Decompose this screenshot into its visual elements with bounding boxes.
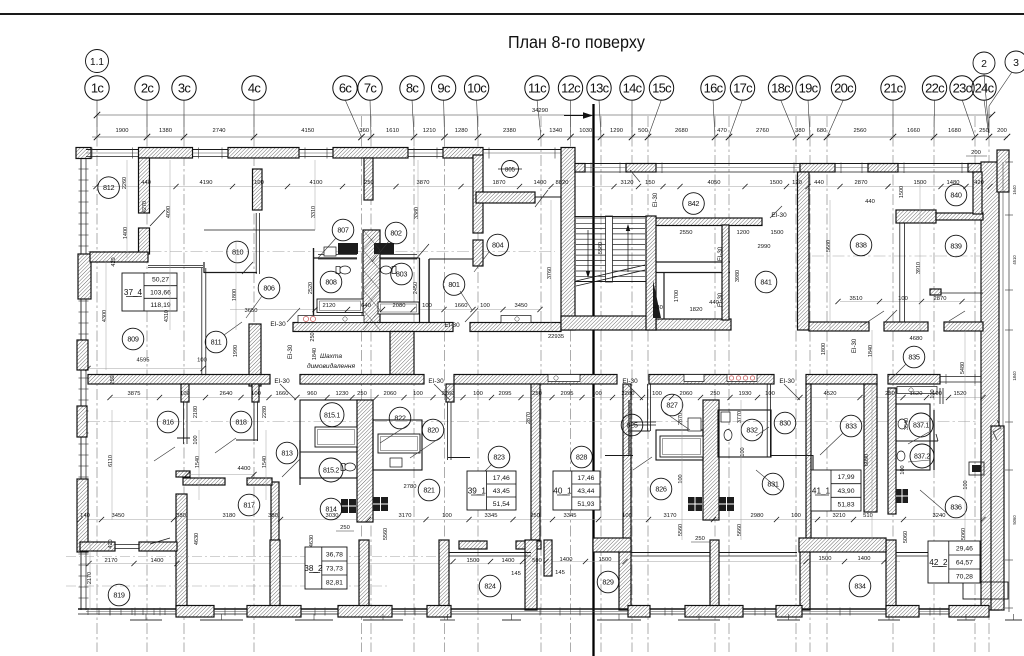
left wall hatched mid2 <box>77 406 87 437</box>
chain line rooms y=421 left <box>88 421 538 423</box>
svg-text:100: 100 <box>473 391 483 397</box>
svg-text:1540: 1540 <box>262 456 268 468</box>
room circle 838 <box>850 234 872 256</box>
svg-text:816: 816 <box>162 418 174 427</box>
svg-text:250: 250 <box>710 391 720 397</box>
svg-text:3980: 3980 <box>735 270 741 282</box>
leader grid 7c <box>370 100 371 138</box>
grid bubble 11c <box>525 76 549 100</box>
svg-text:2380: 2380 <box>503 128 516 134</box>
leader grid 13c <box>599 100 601 138</box>
vertical chain stubs <box>90 160 965 610</box>
interior partitions extra <box>628 400 630 455</box>
leader grid 9c <box>443 100 446 138</box>
svg-text:2760: 2760 <box>756 128 769 134</box>
apartment table 42_2 <box>928 541 980 583</box>
wall above 819 b <box>139 542 177 551</box>
svg-text:4310: 4310 <box>164 310 170 322</box>
svg-text:23c: 23c <box>953 80 973 95</box>
svg-text:827: 827 <box>666 401 678 410</box>
svg-text:17c: 17c <box>733 80 753 95</box>
leader grid 15c <box>648 100 662 138</box>
grid bubble 1c <box>85 76 109 100</box>
bottom pier x338 <box>338 606 392 618</box>
leader grid 3c <box>183 100 185 138</box>
svg-text:5560: 5560 <box>383 528 389 540</box>
svg-text:3450: 3450 <box>112 513 125 519</box>
corridor top wall seg2 <box>470 323 561 332</box>
svg-text:1840: 1840 <box>312 348 318 360</box>
left wall hatched mid1 <box>77 340 88 370</box>
svg-text:250: 250 <box>530 513 540 519</box>
svg-text:2640: 2640 <box>220 391 233 397</box>
grid bubble 17c <box>730 76 754 100</box>
apartment table 37_4 <box>122 273 177 311</box>
grid bubble 2c <box>135 76 159 100</box>
svg-text:EI-30: EI-30 <box>270 321 286 328</box>
corridor bottom wall x806-877 <box>806 375 877 385</box>
svg-text:EI-30: EI-30 <box>771 212 787 219</box>
bathtub 822 <box>378 434 420 453</box>
svg-text:5060: 5060 <box>961 528 967 540</box>
room circle 821 <box>418 479 440 501</box>
right margin small labels <box>993 420 1001 440</box>
room circle 829 <box>597 571 619 593</box>
svg-text:100: 100 <box>898 296 908 302</box>
svg-text:2120: 2120 <box>323 303 336 309</box>
svg-text:EI-30: EI-30 <box>428 378 444 385</box>
svg-text:842: 842 <box>688 199 700 208</box>
dimension row ticks <box>107 395 112 400</box>
svg-text:1660: 1660 <box>907 128 920 134</box>
svg-text:806: 806 <box>263 284 275 293</box>
svg-text:1520: 1520 <box>954 391 967 397</box>
window tick marks top band <box>92 148 962 174</box>
leader bubble 3 <box>989 72 1012 133</box>
leader grid 11c <box>537 100 541 138</box>
svg-text:1500: 1500 <box>770 180 783 186</box>
svg-text:817: 817 <box>243 501 255 510</box>
bottom pier x427 <box>427 606 451 618</box>
svg-text:3345: 3345 <box>485 513 498 519</box>
chain line row y=561 right <box>550 561 900 563</box>
wall 813 right <box>299 440 301 485</box>
svg-text:803: 803 <box>396 270 408 279</box>
wall x888 down <box>888 388 896 514</box>
svg-text:100: 100 <box>413 391 423 397</box>
svg-text:440: 440 <box>865 199 875 205</box>
sink 822 <box>390 458 402 467</box>
room circle 814 <box>320 498 342 520</box>
bathtub 815.1 <box>315 427 357 447</box>
svg-text:2095: 2095 <box>499 391 512 397</box>
window glass lines top-left band <box>86 152 561 154</box>
leader bubble 2 <box>984 74 989 133</box>
vertical grid axis lines (dashed) <box>97 116 989 652</box>
svg-text:804: 804 <box>492 241 504 250</box>
svg-text:1030: 1030 <box>579 128 592 134</box>
svg-text:3120: 3120 <box>621 180 634 186</box>
pier below 805 niche <box>473 240 483 266</box>
door leaf 801 <box>416 244 429 259</box>
top border line <box>0 13 1024 15</box>
chain line rooms y=251 <box>88 251 555 253</box>
room circle 824 <box>479 575 501 597</box>
svg-text:250: 250 <box>310 332 316 341</box>
svg-text:440: 440 <box>141 180 151 186</box>
left wall pier <box>78 254 91 299</box>
svg-text:829: 829 <box>602 578 614 587</box>
svg-text:118,19: 118,19 <box>150 302 171 309</box>
svg-text:250: 250 <box>885 391 895 397</box>
svg-text:1480: 1480 <box>947 180 960 186</box>
svg-text:811: 811 <box>211 338 222 347</box>
room circle 840 <box>945 184 967 206</box>
grid bubble 3c <box>172 76 196 100</box>
grid bubble 24c <box>972 76 996 100</box>
svg-text:100: 100 <box>678 474 684 483</box>
room circle 842 <box>683 193 705 215</box>
svg-text:100: 100 <box>251 391 261 397</box>
svg-text:70,28: 70,28 <box>956 573 973 580</box>
svg-text:10c: 10c <box>467 80 487 95</box>
svg-text:2260: 2260 <box>622 391 635 397</box>
svg-text:2520: 2520 <box>308 282 314 294</box>
svg-text:834: 834 <box>854 582 866 591</box>
top wall pier 4 <box>443 148 483 159</box>
room leader lines <box>154 238 948 514</box>
party wall E low <box>525 540 537 610</box>
corridor bottom wall x649-774 <box>649 375 774 385</box>
824 wall b <box>516 541 541 549</box>
washer left 1 <box>341 499 356 513</box>
bottom outer wall base lines <box>78 608 989 610</box>
svg-text:3170: 3170 <box>399 513 412 519</box>
bathroom top walls 808/803 <box>314 257 358 259</box>
svg-text:1500: 1500 <box>899 186 905 198</box>
leader grid 14c <box>631 100 633 138</box>
room circle 809 <box>122 328 144 350</box>
apartment table 41_1 <box>811 470 861 511</box>
washer right 1 <box>688 497 702 511</box>
svg-text:36,78: 36,78 <box>326 551 343 558</box>
upper cluster dark fixture 1 <box>324 247 336 256</box>
svg-text:832: 832 <box>746 426 758 435</box>
toilet 808 <box>340 266 351 274</box>
svg-text:1340: 1340 <box>549 128 562 134</box>
817 north a <box>183 478 225 485</box>
svg-text:100: 100 <box>930 389 936 398</box>
dim 4595 line <box>88 368 202 370</box>
svg-text:841: 841 <box>760 278 772 287</box>
chain line row y=397 <box>110 397 983 399</box>
svg-text:1400: 1400 <box>858 556 871 562</box>
left outer wall (glazing) <box>80 152 82 610</box>
room circle 831 <box>762 473 784 495</box>
grid bubble 16c <box>701 76 725 100</box>
room circle 807 <box>332 219 354 241</box>
svg-text:18c: 18c <box>771 80 791 95</box>
svg-text:1840: 1840 <box>868 345 874 357</box>
svg-text:20c: 20c <box>834 80 854 95</box>
grid bubble 6c <box>333 76 357 100</box>
svg-text:1680: 1680 <box>948 128 961 134</box>
svg-text:510: 510 <box>863 513 873 519</box>
svg-text:17,46: 17,46 <box>493 475 510 482</box>
room circle 832 <box>741 419 763 441</box>
room circle 803 <box>391 263 413 285</box>
svg-text:41_1: 41_1 <box>812 487 831 496</box>
svg-text:82,81: 82,81 <box>326 579 343 586</box>
svg-text:250: 250 <box>532 391 542 397</box>
svg-text:1210: 1210 <box>423 128 436 134</box>
svg-text:200: 200 <box>997 128 1007 134</box>
leader grid 2c <box>146 100 148 138</box>
svg-text:100: 100 <box>791 513 801 519</box>
room circle 833 <box>840 415 862 437</box>
svg-text:4270: 4270 <box>142 201 148 213</box>
svg-text:7c: 7c <box>364 80 378 95</box>
room circle 813 <box>276 442 298 464</box>
svg-text:51,93: 51,93 <box>577 501 594 508</box>
bottom pier x776 <box>776 606 802 618</box>
svg-text:2260: 2260 <box>442 391 455 397</box>
svg-text:820: 820 <box>427 426 439 435</box>
apartment table 39_1 <box>467 471 516 510</box>
chain line rooms right y=256 <box>812 255 980 257</box>
room circle 812 <box>98 177 120 199</box>
svg-text:360: 360 <box>359 128 369 134</box>
right boundary line <box>1008 158 1010 612</box>
svg-text:1870: 1870 <box>493 180 506 186</box>
balcony sill marks below bottom wall <box>130 614 1022 620</box>
svg-text:808: 808 <box>325 278 337 287</box>
svg-text:16c: 16c <box>704 80 724 95</box>
svg-text:1230: 1230 <box>336 391 349 397</box>
room circle 805 (struck) <box>502 161 519 178</box>
apartment table 40_1 <box>553 471 600 510</box>
stove with burners <box>727 375 757 382</box>
svg-text:19c: 19c <box>799 80 819 95</box>
svg-text:22c: 22c <box>925 80 945 95</box>
svg-text:5580: 5580 <box>598 242 604 254</box>
wall 836 left <box>933 410 935 470</box>
svg-text:3345: 3345 <box>564 513 577 519</box>
svg-text:828: 828 <box>576 453 588 462</box>
wall 829 west <box>544 540 552 576</box>
stair arrow down <box>587 230 589 276</box>
overall dimension line 34290 <box>97 114 992 116</box>
svg-text:250: 250 <box>340 525 350 531</box>
svg-text:64,57: 64,57 <box>956 559 973 566</box>
kitchen 827 walls <box>647 384 649 431</box>
svg-text:837.2: 837.2 <box>914 454 930 461</box>
svg-text:3210: 3210 <box>833 513 846 519</box>
leader grid 10c <box>477 100 478 138</box>
svg-text:5560: 5560 <box>678 524 684 536</box>
heavy section line <box>592 104 594 656</box>
svg-text:4090: 4090 <box>166 206 172 218</box>
svg-text:4400: 4400 <box>238 466 251 472</box>
svg-text:2550: 2550 <box>680 230 693 236</box>
835 north wall b <box>944 322 983 331</box>
room circle 804 <box>487 234 509 256</box>
svg-text:43,44: 43,44 <box>577 488 594 495</box>
838 south wall <box>809 322 869 331</box>
svg-text:2680: 2680 <box>675 128 688 134</box>
balcony bottom right corner <box>963 582 1008 599</box>
bathroom 837 walls <box>896 404 930 470</box>
svg-text:6110: 6110 <box>108 455 114 467</box>
svg-text:815.2: 815.2 <box>323 468 339 475</box>
svg-text:819: 819 <box>113 591 125 600</box>
leader grid 8c <box>412 100 414 138</box>
svg-text:1990: 1990 <box>233 345 239 357</box>
svg-text:250: 250 <box>110 375 116 384</box>
grid bubble 7c <box>358 76 382 100</box>
room circle 817 <box>238 494 260 516</box>
svg-text:9c: 9c <box>437 80 451 95</box>
section arrow on overall line <box>564 115 589 117</box>
svg-text:3180: 3180 <box>223 513 236 519</box>
wall 812/810 upper <box>139 158 150 213</box>
svg-text:50,27: 50,27 <box>152 277 169 284</box>
svg-text:1400: 1400 <box>560 557 573 563</box>
svg-text:835: 835 <box>908 353 920 362</box>
bathroom 822 walls <box>373 420 422 470</box>
svg-text:1800: 1800 <box>232 289 238 301</box>
grid bubble 9c <box>431 76 455 100</box>
svg-text:801: 801 <box>448 280 460 289</box>
chain line row y=186 <box>92 186 983 188</box>
top-right pier d <box>868 164 898 173</box>
svg-text:42_2: 42_2 <box>929 558 948 567</box>
shaft lower-left <box>357 400 373 522</box>
svg-text:EI-30: EI-30 <box>852 338 858 353</box>
svg-text:807: 807 <box>337 226 349 235</box>
top-right pier e <box>968 164 983 173</box>
grid bubble 10c <box>464 76 488 100</box>
corridor window right end <box>940 376 981 378</box>
washer 836 <box>896 489 908 503</box>
svg-text:960: 960 <box>307 391 317 397</box>
svg-text:825: 825 <box>626 421 638 430</box>
chain line row y=301 <box>840 301 983 303</box>
svg-text:21c: 21c <box>884 80 904 95</box>
room circle 834 <box>849 575 871 597</box>
svg-text:812: 812 <box>103 183 115 192</box>
svg-text:2870: 2870 <box>934 296 947 302</box>
leader grid 24c <box>984 100 989 138</box>
svg-text:51,83: 51,83 <box>837 502 854 509</box>
svg-text:3c: 3c <box>178 80 192 95</box>
svg-text:15c: 15c <box>652 80 672 95</box>
svg-text:3450: 3450 <box>515 303 528 309</box>
toilet 837.1 <box>898 419 906 429</box>
apartment table 38_2 <box>305 547 347 589</box>
corridor bottom wall x888-940 <box>888 375 940 385</box>
svg-text:250: 250 <box>695 536 705 542</box>
upper cluster dark fixture 2 <box>374 243 394 254</box>
svg-text:2560: 2560 <box>854 128 867 134</box>
svg-text:500: 500 <box>638 128 648 134</box>
top wall pier 1 <box>139 148 193 159</box>
room circle 825 <box>621 414 643 436</box>
bottom pier x949 <box>949 606 989 618</box>
right wall outer face line <box>1002 162 1004 430</box>
right outer balcony wall <box>991 426 1004 610</box>
svg-text:4595: 4595 <box>137 358 150 364</box>
svg-text:EI-30: EI-30 <box>274 378 290 385</box>
svg-text:100: 100 <box>197 358 207 364</box>
hall wall 812 side <box>148 265 203 267</box>
washer left 2 <box>373 497 388 511</box>
wall below 812 <box>90 252 148 262</box>
chain line row y=563 <box>80 563 540 565</box>
svg-text:51,54: 51,54 <box>493 501 510 508</box>
svg-text:6c: 6c <box>339 80 353 95</box>
svg-text:2780: 2780 <box>404 484 417 490</box>
svg-text:818: 818 <box>235 418 247 427</box>
bathroom 826 walls <box>656 430 703 460</box>
party wall F <box>623 384 631 540</box>
svg-text:120: 120 <box>792 180 802 186</box>
top wall pier 2 <box>228 148 299 159</box>
svg-text:420: 420 <box>111 257 117 266</box>
svg-text:100: 100 <box>592 391 602 397</box>
svg-text:2c: 2c <box>141 80 155 95</box>
leader grid 17c <box>729 100 743 138</box>
835 north wall a <box>884 322 928 331</box>
wall 801 left <box>428 259 430 322</box>
svg-text:100: 100 <box>480 303 490 309</box>
svg-text:100: 100 <box>622 513 632 519</box>
room circle 836 <box>945 496 967 518</box>
party wall G low <box>800 540 810 610</box>
svg-text:14c: 14c <box>623 80 643 95</box>
svg-text:4100: 4100 <box>310 180 323 186</box>
misc door leafs <box>280 170 965 400</box>
svg-text:4150: 4150 <box>301 128 314 134</box>
grid bubble 19c <box>796 76 820 100</box>
svg-text:2080: 2080 <box>393 303 406 309</box>
svg-text:29,46: 29,46 <box>956 545 973 552</box>
svg-text:3760: 3760 <box>547 267 553 279</box>
bathtub 826 <box>660 436 703 457</box>
wall 829 top <box>593 538 631 552</box>
shaft X decor <box>357 230 719 520</box>
svg-text:1500: 1500 <box>467 558 480 564</box>
room circle 841 <box>755 271 777 293</box>
stairwell west wall <box>561 148 575 331</box>
svg-text:1400: 1400 <box>123 227 129 239</box>
svg-text:Шахта: Шахта <box>320 353 342 360</box>
room circle 823 <box>488 446 510 468</box>
svg-text:480: 480 <box>653 305 663 311</box>
stair east wall <box>646 216 656 330</box>
pier 816 top <box>181 384 189 402</box>
top-right pier a <box>575 164 585 173</box>
svg-text:34290: 34290 <box>532 108 548 114</box>
svg-text:805: 805 <box>505 167 516 173</box>
svg-text:73,73: 73,73 <box>326 565 343 572</box>
leader grid 12c <box>570 100 572 138</box>
party wall D pier <box>446 384 454 402</box>
svg-text:830: 830 <box>779 419 791 428</box>
svg-text:2740: 2740 <box>213 128 226 134</box>
svg-text:824: 824 <box>484 582 496 591</box>
wall below 1820 room <box>656 319 731 330</box>
